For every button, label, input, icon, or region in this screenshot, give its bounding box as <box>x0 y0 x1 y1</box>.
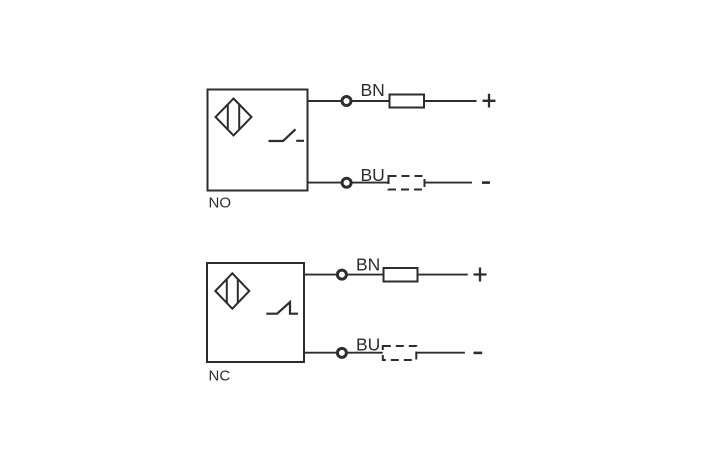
sensor box U1 (NO unit) <box>208 90 308 191</box>
svg-text:BU: BU <box>361 165 385 185</box>
terminal circle BU (NC unit) <box>337 348 346 357</box>
wire BN terminal to resistor (NC unit) <box>348 274 384 276</box>
svg-text:BU: BU <box>356 335 380 355</box>
wire BN from box to terminal (NO unit) <box>308 100 342 102</box>
wire dashed load to minus (NC unit) <box>416 352 465 354</box>
diamond inner line right (NC unit) <box>237 279 239 303</box>
terminal circle BN (NC unit) <box>337 270 346 279</box>
load resistor (NC unit, BN line) <box>384 268 418 282</box>
NC contact switch <box>266 302 298 314</box>
diamond inner line right (NO unit) <box>238 105 240 130</box>
svg-text:BN: BN <box>356 255 380 275</box>
wire BU terminal to dashed load (NC unit) <box>348 352 383 354</box>
minus terminal (NC unit) <box>474 352 483 355</box>
svg-text:NC: NC <box>209 368 231 385</box>
terminal circle BU (NO unit) <box>342 178 351 187</box>
sensor box U2 (NC unit) <box>207 263 304 362</box>
wire resistor to plus (NC unit) <box>418 274 468 276</box>
plus terminal (NO unit) <box>483 94 496 108</box>
diamond inner line left (NC unit) <box>226 279 228 303</box>
svg-text:BN: BN <box>361 80 385 100</box>
wire resistor to plus (NO unit) <box>424 100 477 102</box>
load resistor (NO unit, BN line) <box>390 95 425 108</box>
wire BN terminal to resistor (NO unit) <box>352 100 389 102</box>
wire BU terminal to dashed load (NO unit) <box>352 182 388 184</box>
diamond inner line left (NO unit) <box>227 105 229 130</box>
sensor symbol diamond (NC unit) <box>215 273 249 308</box>
plus terminal (NC unit) <box>474 268 487 282</box>
wire BU from box to terminal (NO unit) <box>308 182 342 184</box>
dashed load box (NO unit, BU line) <box>389 176 425 190</box>
wire BN from box to terminal (NC unit) <box>304 274 336 276</box>
minus terminal (NO unit) <box>482 181 490 184</box>
dashed load box (NC unit, BU line) <box>383 346 417 360</box>
terminal circle BN (NO unit) <box>342 97 351 106</box>
wire dashed load to minus (NO unit) <box>425 182 473 184</box>
NO contact switch <box>269 129 305 141</box>
svg-text:NO: NO <box>209 195 232 212</box>
wire BU from box to terminal (NC unit) <box>304 352 336 354</box>
sensor symbol diamond (NO unit) <box>216 99 252 136</box>
